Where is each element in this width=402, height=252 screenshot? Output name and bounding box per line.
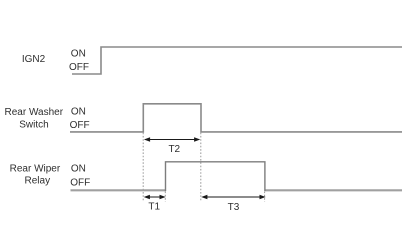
wire Rear Washer Switch waveform with ON pulse (70, 104, 402, 132)
Rear Wiper Relay OFF level label (70, 178, 90, 189)
svg-text:Rear Wiper: Rear Wiper (10, 164, 61, 175)
Rear Washer Switch OFF level label (70, 120, 90, 131)
svg-text:OFF: OFF (70, 178, 90, 189)
svg-text:OFF: OFF (70, 120, 90, 131)
signal label Rear Washer Switch (5, 107, 64, 130)
svg-text:T2: T2 (168, 144, 180, 155)
dotted reference line at washer switch rise (142, 133, 144, 202)
wire Rear Wiper Relay OFF baseline right segment (265, 189, 402, 191)
svg-text:ON: ON (71, 107, 86, 118)
wire IGN2 waveform: OFF then rise to ON (72, 47, 402, 74)
dotted reference line at washer switch fall (200, 133, 202, 202)
svg-text:Relay: Relay (25, 176, 51, 187)
svg-text:OFF: OFF (69, 62, 89, 73)
dotted stub below relay fall (264, 192, 266, 202)
IGN2 ON level label (71, 49, 86, 60)
Rear Washer Switch ON level label (71, 107, 86, 118)
svg-text:ON: ON (71, 49, 86, 60)
dotted stub below relay rise (164, 192, 166, 202)
svg-text:Switch: Switch (19, 119, 48, 130)
dimension arrow T1 (144, 195, 166, 200)
wire Rear Wiper Relay OFF baseline left segment (71, 189, 167, 191)
IGN2 OFF level label (69, 62, 89, 73)
label T2 (168, 144, 180, 155)
svg-text:T3: T3 (228, 202, 240, 213)
wire Rear Wiper Relay ON pulse (166, 162, 265, 191)
svg-text:ON: ON (71, 164, 86, 175)
signal label IGN2 (22, 54, 46, 65)
label T1 (148, 202, 160, 213)
svg-text:Rear Washer: Rear Washer (5, 107, 64, 118)
Rear Wiper Relay ON level label (71, 164, 86, 175)
signal label Rear Wiper Relay (10, 164, 61, 187)
dimension arrow T3 (201, 195, 266, 200)
label T3 (228, 202, 240, 213)
svg-text:IGN2: IGN2 (22, 54, 46, 65)
dimension arrow T2 (144, 137, 200, 142)
svg-text:T1: T1 (148, 202, 160, 213)
